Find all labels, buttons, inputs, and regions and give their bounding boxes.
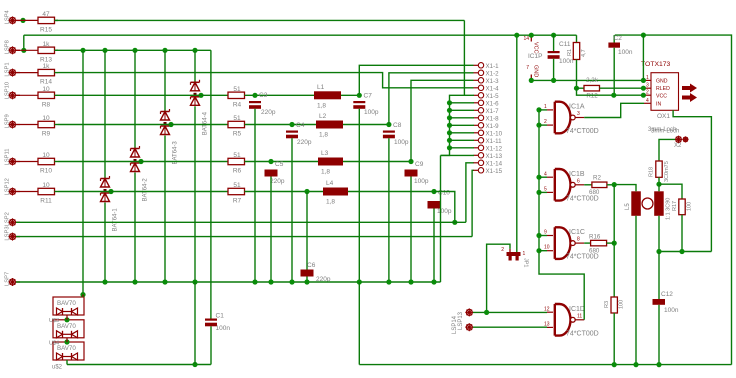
junction at LSP8 bbox=[21, 48, 26, 53]
svg-text:2: 2 bbox=[501, 247, 504, 253]
svg-text:LSP13: LSP13 bbox=[458, 311, 464, 330]
svg-text:X1-10: X1-10 bbox=[486, 130, 503, 137]
svg-text:3: 3 bbox=[577, 111, 580, 117]
connector pin X1-4 bbox=[474, 85, 500, 92]
svg-text:C4: C4 bbox=[296, 122, 305, 129]
junction R17 bot bbox=[679, 249, 684, 254]
pin LSP4 bbox=[5, 9, 21, 24]
svg-text:10: 10 bbox=[42, 182, 50, 189]
wire ch1 row b bbox=[245, 94, 315, 96]
junction LSP13 bbox=[484, 310, 489, 315]
svg-text:X1-11: X1-11 bbox=[486, 138, 503, 145]
wire sec top bbox=[658, 184, 660, 191]
pad LSP14 bbox=[452, 315, 473, 334]
svg-text:JP1: JP1 bbox=[523, 258, 529, 267]
svg-text:L4: L4 bbox=[326, 180, 334, 187]
wire column x=83 bbox=[82, 50, 84, 294]
svg-text:IC1P: IC1P bbox=[528, 53, 542, 60]
svg-text:74*CT00D: 74*CT00D bbox=[566, 254, 599, 261]
resistor R2 bbox=[584, 175, 607, 197]
svg-text:X1-15: X1-15 bbox=[486, 168, 503, 175]
svg-text:C9: C9 bbox=[415, 161, 424, 168]
junction C3 node bbox=[252, 93, 257, 98]
svg-text:X1-9: X1-9 bbox=[486, 123, 500, 130]
svg-text:2: 2 bbox=[646, 90, 649, 96]
wire cross column 360 bbox=[358, 282, 360, 365]
resistor R14 bbox=[20, 63, 58, 86]
wire LSP3 row bbox=[16, 236, 472, 238]
svg-text:X2: X2 bbox=[674, 143, 682, 149]
svg-text:R3: R3 bbox=[604, 301, 610, 308]
wire VCC row bbox=[577, 88, 645, 95]
wire clamp column x=135 bbox=[134, 50, 136, 282]
wire right edge GND bbox=[615, 35, 732, 365]
svg-text:R8: R8 bbox=[42, 101, 51, 108]
svg-text:X1-3: X1-3 bbox=[486, 78, 500, 85]
wire ch4 to LSP2 row bbox=[434, 192, 455, 223]
label 3mm-Loch bbox=[648, 127, 679, 135]
svg-text:10: 10 bbox=[42, 115, 50, 122]
svg-text:BAV70: BAV70 bbox=[57, 345, 76, 352]
label OX1 bbox=[657, 113, 670, 120]
junction BAT64-4 tap bbox=[198, 93, 203, 98]
dual schottky diode BAT64-2 bbox=[131, 146, 149, 202]
svg-text:C1: C1 bbox=[216, 313, 225, 320]
svg-text:2,2k: 2,2k bbox=[586, 77, 599, 84]
svg-text:TOTX173: TOTX173 bbox=[641, 61, 671, 68]
svg-text:10: 10 bbox=[42, 86, 50, 93]
svg-text:X1-8: X1-8 bbox=[486, 115, 500, 122]
pin LSP7 bbox=[5, 272, 21, 286]
svg-text:L3: L3 bbox=[321, 150, 329, 157]
capacitor C7 bbox=[353, 93, 379, 117]
wire ch1 row a bbox=[58, 94, 228, 96]
wire ch4 row a bbox=[58, 191, 228, 193]
junction C4 node bbox=[289, 122, 294, 127]
wire ch2 riser to X1-2 bbox=[389, 73, 474, 125]
svg-text:220p: 220p bbox=[297, 139, 312, 146]
junction C7 node bbox=[357, 93, 362, 98]
wire IC1A out to TOTX IN bbox=[584, 103, 644, 117]
junction TOTX VCC bbox=[641, 93, 646, 98]
junction gnd bus x=388.9 bbox=[386, 279, 391, 284]
wire X1-11 stub bbox=[450, 139, 475, 141]
svg-text:14: 14 bbox=[523, 36, 529, 42]
junction bus R3 bbox=[612, 362, 617, 367]
junction at LSP4 bbox=[20, 18, 25, 23]
svg-text:4,7: 4,7 bbox=[581, 49, 587, 57]
wire LSP13 to JP1 bbox=[487, 244, 510, 312]
wire GND row bbox=[531, 79, 644, 81]
junction gate input y=177.2 bbox=[536, 175, 541, 180]
svg-text:51: 51 bbox=[233, 182, 241, 189]
junction gnd drop TOTX bbox=[641, 33, 646, 38]
wire C3 column bbox=[254, 109, 256, 282]
junction C6 node bbox=[304, 189, 309, 194]
wire LSP2 row bbox=[16, 221, 466, 223]
capacitor C10 bbox=[428, 190, 452, 216]
wire VCC bus (y=35) bbox=[24, 34, 577, 36]
svg-text:C5: C5 bbox=[275, 161, 284, 168]
junction IC1P gnd bbox=[529, 78, 534, 83]
connector pin X1-6 bbox=[474, 100, 500, 107]
resistor R4 bbox=[228, 86, 245, 109]
junction X1-8 gnd bbox=[447, 115, 452, 120]
junction X1-7 gnd bbox=[447, 108, 452, 113]
connector pin X1-11 bbox=[474, 138, 503, 145]
junction C9 node bbox=[408, 159, 413, 164]
junction BAT64-1 tap bbox=[108, 189, 113, 194]
svg-text:L2: L2 bbox=[319, 113, 327, 120]
svg-text:3C0m75: 3C0m75 bbox=[664, 161, 670, 182]
svg-text:U$3: U$3 bbox=[49, 318, 59, 324]
wire VCC corner to R1 bbox=[576, 35, 578, 42]
resistor R1 bbox=[567, 43, 587, 60]
svg-text:680: 680 bbox=[589, 189, 600, 196]
dual schottky diode BAT64-3 bbox=[161, 109, 179, 165]
pin LSP1 bbox=[5, 62, 21, 76]
junction xfmr top bbox=[656, 182, 661, 187]
svg-text:R5: R5 bbox=[233, 131, 242, 138]
svg-text:X1-12: X1-12 bbox=[486, 145, 503, 152]
connector pin X1-3 bbox=[474, 78, 500, 85]
capacitor C9 bbox=[405, 161, 429, 185]
capacitor C2 bbox=[608, 35, 632, 95]
wire IC1B input1 bbox=[539, 176, 547, 178]
svg-text:R12: R12 bbox=[586, 93, 598, 100]
svg-text:LSP10: LSP10 bbox=[5, 82, 11, 99]
svg-text:C6: C6 bbox=[307, 262, 316, 269]
TOTX emission arrows bbox=[682, 84, 697, 103]
junction clamp rail x=105 bbox=[102, 48, 107, 53]
capacitor C6 bbox=[301, 262, 331, 283]
svg-text:R15: R15 bbox=[40, 26, 52, 33]
svg-text:C2: C2 bbox=[614, 35, 623, 42]
wire sec bottom node bbox=[659, 251, 711, 253]
resistor R17 bbox=[672, 199, 693, 215]
connector pin X1-15 bbox=[474, 168, 503, 175]
svg-text:IC1C: IC1C bbox=[569, 229, 585, 236]
wire sec bottom bbox=[658, 216, 660, 252]
svg-text:LSP3: LSP3 bbox=[5, 226, 11, 240]
junction BAV70-2 top bbox=[64, 315, 69, 322]
junction BAV70-3 top bbox=[64, 338, 69, 345]
svg-text:100p: 100p bbox=[437, 208, 452, 215]
wire C12 to bus bbox=[658, 305, 660, 365]
wire C1 to bottom bus bbox=[210, 326, 212, 364]
wire ch4 row c bbox=[348, 191, 434, 193]
wire ch2 row b bbox=[245, 124, 317, 126]
junction X1-9 gnd bbox=[447, 123, 452, 128]
svg-text:IN: IN bbox=[656, 101, 661, 107]
svg-text:LSP4: LSP4 bbox=[5, 9, 11, 24]
svg-text:7: 7 bbox=[526, 65, 529, 71]
svg-text:10: 10 bbox=[42, 152, 50, 159]
svg-text:BAT64-4: BAT64-4 bbox=[203, 111, 209, 135]
junction clamp rail x=195 bbox=[192, 48, 197, 53]
svg-text:BAT64-1: BAT64-1 bbox=[113, 208, 119, 232]
svg-text:X1-13: X1-13 bbox=[486, 153, 503, 160]
wire ch3 row c bbox=[343, 161, 411, 163]
svg-text:X1-14: X1-14 bbox=[486, 160, 503, 167]
junction BAT64-3 tap bbox=[168, 122, 173, 127]
svg-text:C11: C11 bbox=[559, 41, 571, 48]
wire C7 column bbox=[358, 109, 360, 282]
wire R17 top bbox=[659, 184, 682, 199]
inductor L5 primary bbox=[625, 191, 641, 216]
pin LSP11 bbox=[5, 149, 21, 166]
pin LSP12 bbox=[5, 178, 21, 195]
wire X2 to R18 bbox=[659, 139, 675, 161]
junction R12 left bbox=[574, 86, 579, 91]
connector pin X1-5 bbox=[474, 93, 500, 100]
wire IC1B input2 bbox=[539, 191, 547, 193]
inductor L3 bbox=[318, 150, 343, 176]
resistor R7 bbox=[228, 182, 245, 205]
capacitor C11 bbox=[548, 35, 574, 80]
svg-text:X1-1: X1-1 bbox=[486, 63, 500, 70]
wire C10 column bbox=[433, 209, 435, 283]
capacitor C4 bbox=[286, 122, 312, 146]
junction R16 out bbox=[612, 241, 617, 246]
svg-text:3mm-Loch: 3mm-Loch bbox=[651, 129, 679, 135]
resistor R18 bbox=[649, 161, 671, 182]
junction X1-10 gnd bbox=[447, 130, 452, 135]
svg-text:X1-7: X1-7 bbox=[486, 108, 500, 115]
resistor R12 bbox=[577, 77, 645, 100]
svg-text:R18: R18 bbox=[649, 167, 655, 177]
inductor L2 bbox=[316, 113, 343, 139]
svg-text:100n: 100n bbox=[216, 325, 231, 332]
connector pin X1-9 bbox=[474, 123, 500, 130]
capacitor C8 bbox=[383, 122, 409, 146]
wire X1-10 stub bbox=[450, 132, 475, 134]
junction gnd bus x=195 bbox=[192, 279, 197, 284]
svg-text:51: 51 bbox=[233, 86, 241, 93]
wire X1 gnd chain bbox=[441, 95, 475, 155]
svg-text:R11: R11 bbox=[40, 198, 52, 205]
svg-text:6: 6 bbox=[577, 178, 580, 184]
svg-text:LSP7: LSP7 bbox=[5, 272, 11, 286]
junction BAT64-2 tap bbox=[138, 159, 143, 164]
wire ch1 row c bbox=[341, 94, 359, 96]
junction gnd bus x=307 bbox=[304, 279, 309, 284]
resistor R15 bbox=[20, 11, 58, 34]
diode array U$4 BAV70 bbox=[49, 341, 84, 361]
connector pin X1-13 bbox=[474, 153, 503, 160]
svg-text:LSP2: LSP2 bbox=[5, 212, 11, 226]
diode array U$2 BAV70 bbox=[53, 297, 84, 315]
transformer core bbox=[642, 198, 653, 209]
wire C8 column bbox=[388, 138, 390, 282]
connector pin X1-8 bbox=[474, 115, 500, 122]
svg-text:1,8: 1,8 bbox=[326, 199, 335, 206]
junction gate input y=235.5 bbox=[536, 233, 541, 238]
svg-text:R16: R16 bbox=[589, 234, 601, 241]
svg-text:12: 12 bbox=[544, 306, 550, 312]
IC U1 power IC1P bbox=[523, 35, 542, 80]
junction bottom bus x=195 bbox=[192, 362, 197, 367]
svg-text:L5: L5 bbox=[625, 203, 631, 210]
wire ch1 riser to X1-1 bbox=[359, 65, 473, 95]
junction gnd bus x=271 bbox=[268, 279, 273, 284]
resistor R10 bbox=[20, 152, 58, 175]
connector pin X1-2 bbox=[474, 70, 500, 77]
svg-text:VCC: VCC bbox=[533, 42, 539, 54]
junction BAV70-1 top bbox=[80, 292, 85, 297]
pin LSP2 bbox=[5, 212, 21, 226]
svg-text:1,8: 1,8 bbox=[321, 169, 330, 176]
diode array U$3 BAV70 bbox=[49, 318, 84, 338]
svg-text:BAV70: BAV70 bbox=[57, 323, 76, 330]
svg-text:47: 47 bbox=[42, 11, 50, 18]
wire X1-8 stub bbox=[450, 117, 475, 119]
svg-text:100n: 100n bbox=[559, 58, 574, 65]
resistor R5 bbox=[228, 115, 245, 138]
wire clamp column x=105 bbox=[104, 50, 106, 282]
junction C2/VCC bbox=[611, 93, 616, 98]
junction C10 node bbox=[431, 189, 436, 194]
svg-text:LSP9: LSP9 bbox=[5, 114, 11, 128]
wire TOTX case down bbox=[673, 110, 711, 251]
junction clamp rail x=165 bbox=[162, 48, 167, 53]
junction bus C12 bbox=[656, 362, 661, 367]
junction gate input y=109.9 bbox=[536, 107, 541, 112]
solder jumper JP1 bbox=[501, 247, 528, 267]
junction C11 top bbox=[551, 33, 556, 38]
wire C12 column bbox=[658, 252, 660, 300]
svg-text:1: 1 bbox=[544, 104, 547, 110]
wire R17 bottom bbox=[681, 215, 683, 252]
junction gnd bus x=292 bbox=[289, 279, 294, 284]
svg-text:2: 2 bbox=[544, 119, 547, 125]
inductor L4 bbox=[323, 180, 348, 206]
svg-text:u$2: u$2 bbox=[52, 365, 63, 371]
junction gate input y=192.4 bbox=[536, 190, 541, 195]
svg-text:LSP14: LSP14 bbox=[452, 315, 458, 334]
wire column 195 lower bbox=[194, 282, 196, 365]
wire bottom GND bus right bbox=[359, 364, 731, 366]
svg-text:9: 9 bbox=[544, 230, 547, 236]
junction clamp rail x=83 bbox=[80, 48, 85, 53]
svg-text:X1-2: X1-2 bbox=[486, 70, 500, 77]
junction gate input y=125.1 bbox=[536, 123, 541, 128]
dual schottky diode BAT64-4 bbox=[191, 80, 209, 136]
junction N1 bbox=[612, 182, 617, 187]
svg-text:R6: R6 bbox=[233, 168, 242, 175]
junction gnd bus x=411 bbox=[408, 279, 413, 284]
svg-text:OX1: OX1 bbox=[657, 113, 670, 120]
resistor R8 bbox=[20, 86, 58, 109]
junction VCC bus x=517 bbox=[514, 33, 519, 38]
svg-text:R17: R17 bbox=[672, 201, 678, 211]
NAND gate IC1B bbox=[544, 169, 599, 202]
wire GND net from R15 (y=20) bbox=[55, 19, 465, 21]
wire IC1C input2 bbox=[539, 250, 547, 252]
junction X1-12 gnd bbox=[447, 145, 452, 150]
resistor R3 bbox=[604, 297, 625, 313]
junction gnd bus x=359.3 bbox=[357, 279, 362, 284]
svg-text:680: 680 bbox=[589, 248, 600, 255]
wire LSP2 riser to X1-14 bbox=[466, 163, 474, 223]
svg-text:100n: 100n bbox=[618, 49, 633, 56]
svg-text:C12: C12 bbox=[661, 291, 673, 298]
svg-text:BAT64-2: BAT64-2 bbox=[143, 178, 149, 202]
wire R14 row to X1-4 bbox=[58, 73, 474, 88]
wire clamp column x=195 bbox=[194, 50, 196, 282]
wire R16 to node bbox=[607, 242, 615, 244]
wire VCC column to JP1 bbox=[516, 35, 518, 252]
junction bus L5 bbox=[633, 362, 638, 367]
svg-text:5: 5 bbox=[544, 186, 547, 192]
svg-text:100: 100 bbox=[687, 202, 693, 211]
capacitor C3 bbox=[249, 92, 276, 116]
resistor R11 bbox=[20, 182, 58, 205]
inductor L1 bbox=[314, 84, 341, 110]
junction gate input y=250.7 bbox=[536, 248, 541, 253]
connector pin X1-1 bbox=[474, 63, 500, 70]
wire R18 to node bbox=[658, 177, 660, 184]
resistor R13 bbox=[20, 41, 58, 64]
svg-text:IC1B: IC1B bbox=[569, 171, 585, 178]
svg-text:R4: R4 bbox=[233, 101, 242, 108]
svg-text:1: 1 bbox=[646, 75, 649, 81]
svg-text:LSP12: LSP12 bbox=[5, 178, 11, 195]
svg-text:10: 10 bbox=[544, 245, 550, 251]
junction C11 bottom bbox=[551, 78, 556, 83]
svg-text:X1-5: X1-5 bbox=[486, 93, 500, 100]
svg-text:LSP1: LSP1 bbox=[5, 62, 11, 76]
pin LSP9 bbox=[5, 114, 21, 128]
junction C8 node bbox=[386, 122, 391, 127]
wire IC1C input1 bbox=[539, 235, 547, 237]
junction C5 node bbox=[268, 159, 273, 164]
svg-text:1k: 1k bbox=[43, 63, 51, 70]
dual schottky diode BAT64-1 bbox=[101, 176, 119, 232]
svg-text:RLED: RLED bbox=[656, 86, 670, 92]
NAND gate IC1C bbox=[544, 227, 599, 260]
svg-text:3: 3 bbox=[646, 83, 649, 89]
svg-text:1,8: 1,8 bbox=[319, 132, 328, 139]
svg-text:74*CT00D: 74*CT00D bbox=[566, 330, 599, 337]
svg-text:R10: R10 bbox=[40, 168, 52, 175]
svg-text:R14: R14 bbox=[40, 79, 52, 86]
wire X1-9 stub bbox=[450, 124, 475, 126]
svg-text:13: 13 bbox=[544, 321, 550, 327]
wire L5 bottom bbox=[635, 216, 637, 365]
pin LSP8 bbox=[5, 40, 21, 54]
resistor R9 bbox=[20, 115, 58, 138]
wire X1-12 stub bbox=[450, 147, 475, 149]
wire R3 to bus bbox=[613, 313, 615, 365]
wire BAV70 to bottom bus bbox=[66, 360, 68, 365]
wire ch3 row b bbox=[245, 161, 319, 163]
pad X2 bbox=[674, 136, 689, 149]
wire X1-13 row bbox=[441, 154, 475, 156]
svg-text:100: 100 bbox=[619, 300, 625, 309]
pin LSP10 bbox=[5, 82, 21, 99]
transformer secondary bbox=[654, 191, 671, 220]
svg-text:220p: 220p bbox=[261, 109, 276, 116]
NAND gate IC1A bbox=[544, 102, 599, 135]
junction TOTX RLED bbox=[641, 86, 646, 91]
connector pin X1-12 bbox=[474, 145, 503, 152]
svg-text:R2: R2 bbox=[593, 175, 601, 182]
wire LSP13 to IC1D bbox=[473, 311, 547, 313]
capacitor C5 bbox=[265, 161, 285, 185]
label U$2 bbox=[52, 365, 63, 371]
svg-text:LSP8: LSP8 bbox=[5, 40, 11, 54]
